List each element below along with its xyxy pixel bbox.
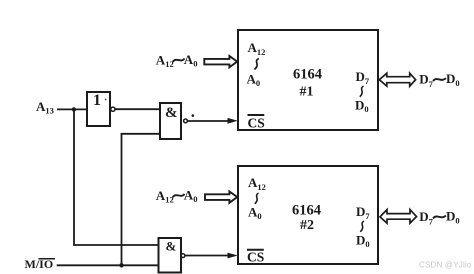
svg-text:D7: D7 xyxy=(419,72,433,89)
wire G1 output to U1 CS xyxy=(187,120,229,122)
wire M/IO to gate G2 xyxy=(57,264,159,266)
svg-text:1: 1 xyxy=(93,92,101,109)
svg-text:CS: CS xyxy=(247,249,264,264)
wire M/IO branch up to G1 lower input xyxy=(121,134,123,265)
net label A12~A0 (bus to U1) xyxy=(156,52,198,69)
memory chip U2 (6164 #2) body xyxy=(238,166,378,264)
wire G2 output to U2 CS xyxy=(185,255,229,257)
U2 tilde between A12 and A0 xyxy=(255,193,259,204)
memory chip U1 (6164 #1) body xyxy=(238,30,378,130)
data bus double arrow at U2 xyxy=(380,210,417,224)
svg-text:&: & xyxy=(166,239,177,254)
U2 pin label CS (active low) xyxy=(247,249,264,264)
svg-text:A13: A13 xyxy=(36,99,54,116)
wire A13 branch down xyxy=(73,109,75,245)
svg-text:D0: D0 xyxy=(446,209,460,226)
svg-text:A12: A12 xyxy=(156,188,174,205)
svg-text:A0: A0 xyxy=(184,188,198,204)
junction dot on M/IO wire xyxy=(119,263,123,267)
address bus block arrow into U2 xyxy=(205,192,237,203)
svg-text:CSDN @YJlio: CSDN @YJlio xyxy=(419,260,472,269)
net label D7~D0 (U1 data bus) xyxy=(419,71,459,89)
inverter gate (1) body xyxy=(87,92,110,126)
net label D7~D0 (U2 data bus) xyxy=(419,209,459,227)
svg-text:D7: D7 xyxy=(419,209,433,226)
svg-text:&: & xyxy=(165,105,178,121)
svg-text:D0: D0 xyxy=(446,71,460,88)
stray mark near inverter label xyxy=(105,99,107,101)
svg-text:6164: 6164 xyxy=(293,67,322,83)
NAND gate G2 body xyxy=(159,238,182,273)
data bus double arrow at U1 xyxy=(379,73,415,86)
junction dot on A13 wire xyxy=(72,107,76,111)
svg-text:#1: #1 xyxy=(300,85,314,100)
svg-text:A12: A12 xyxy=(156,53,174,70)
net label A12~A0 (bus to U2) xyxy=(156,188,198,205)
G2 output bubble xyxy=(181,254,185,258)
NAND gate G1 body xyxy=(160,103,181,139)
svg-text:#2: #2 xyxy=(300,218,314,233)
U1 tilde between A12 and A0 xyxy=(255,59,259,70)
G1 output bubble xyxy=(184,119,188,123)
wire inverter output to gate G1 xyxy=(115,108,160,110)
address bus block arrow into U1 xyxy=(204,56,237,67)
wire A13 branch to gate G2 input xyxy=(73,244,158,246)
svg-text:A0: A0 xyxy=(184,52,198,68)
U1 pin label CS (active low) xyxy=(248,115,265,131)
U1 tilde between D7 and D0 xyxy=(360,86,364,97)
inverter output bubble xyxy=(111,107,115,111)
svg-text:CS: CS xyxy=(248,116,265,131)
stray dot right of G1 bubble xyxy=(192,114,195,117)
net label M/IO (IO active low) xyxy=(25,257,56,271)
wire branch into G1 lower input xyxy=(121,133,160,135)
svg-text:6164: 6164 xyxy=(292,203,321,219)
wire A13 to inverter input xyxy=(57,108,87,110)
arrowhead into U1 CS xyxy=(228,118,238,124)
arrowhead into U2 CS xyxy=(228,253,238,259)
U2 tilde between D7 and D0 xyxy=(360,221,364,232)
